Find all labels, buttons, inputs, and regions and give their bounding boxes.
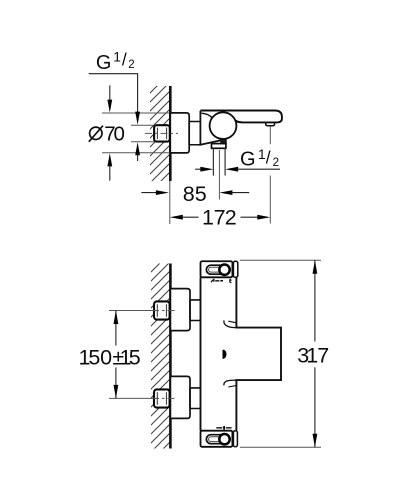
G 1/2 leader arrow (pointing down at nut top line)	[135, 112, 140, 125]
bottom union nut	[154, 389, 170, 407]
spout tip extension line (lower part)	[269, 176, 271, 224]
top union nut	[154, 301, 170, 319]
svg-text:317: 317	[297, 343, 329, 367]
escutcheon (wall rosette, side)	[170, 113, 189, 153]
union nut on wall	[154, 125, 170, 141]
bottom inlet centerline / 150 extension line	[109, 397, 154, 399]
nut chamfer lines	[156, 128, 158, 140]
svg-text:G: G	[96, 52, 112, 74]
handle side cap (top)	[233, 261, 237, 277]
svg-text:1: 1	[258, 147, 266, 162]
handle knob circle (top)	[219, 265, 229, 275]
bottom connector	[190, 388, 201, 409]
handle grip stadium (bottom)	[206, 435, 230, 444]
nut bottom arrow (pointing up)	[135, 142, 140, 155]
wall (hatched)	[151, 264, 170, 449]
svg-text:2: 2	[273, 157, 279, 169]
handle knob circle (bottom)	[219, 434, 229, 444]
handle side cap (bottom)	[233, 431, 237, 447]
G 1/2 leader underline	[89, 74, 138, 112]
wall face line	[169, 86, 172, 181]
wall (hatched) top view	[150, 86, 170, 181]
wall face extension line (below wall)	[169, 181, 171, 224]
nut bottom edge extension line	[131, 141, 154, 143]
temperature handle (top)	[201, 261, 233, 277]
G 1/2 bottom outlet dimension: left arrow	[195, 168, 201, 170]
shower outlet nut	[212, 144, 226, 149]
dimension 85 : right arrow at hose centerline	[219, 190, 232, 195]
svg-text:70: 70	[104, 122, 125, 145]
cartridge dome circle	[210, 112, 237, 139]
Ø70 bottom arrow (pointing up)	[107, 153, 112, 166]
top inlet centerline / 150 extension line	[109, 310, 154, 312]
svg-text:2: 2	[128, 59, 134, 71]
connector between escutcheon and body	[189, 122, 200, 145]
dimension 150±15 : line + arrows	[115, 311, 117, 346]
nut top edge extension line	[131, 124, 154, 126]
Ø70 dimension label	[90, 127, 102, 139]
svg-text:1: 1	[113, 50, 121, 65]
hose thread (two vertical lines)	[212, 148, 214, 175]
spout outlet nub	[266, 122, 275, 125]
faucet body left block	[200, 111, 222, 145]
svg-text:85: 85	[183, 182, 207, 206]
Ø70 extension line (top, escutcheon top edge extended)	[102, 112, 170, 114]
bottom escutcheon	[170, 376, 190, 418]
body top-left fillet curve	[202, 113, 212, 117]
flow handle (bottom)	[201, 431, 233, 447]
hose centerline	[218, 150, 220, 200]
bottom protrusion fillet arc	[224, 380, 237, 385]
svg-text:150±15: 150±15	[79, 346, 141, 370]
scale marks above bottom handle	[216, 427, 222, 428]
dimension 317 : extension lines	[240, 259, 321, 261]
thermostat main body with mixer protrusion	[201, 277, 282, 430]
dimension 85 : left arrow at wall	[141, 192, 157, 194]
right arrow	[225, 167, 238, 172]
spout tip extension line (upper part)	[269, 126, 271, 144]
inlet centerlines dash-dot over nuts	[152, 310, 176, 312]
temperature scale marks below top handle	[211, 280, 213, 283]
top protrusion fillet arc	[224, 320, 237, 327]
top connector	[190, 300, 201, 321]
dimension 172	[170, 215, 183, 220]
svg-text:172: 172	[202, 205, 237, 229]
nut centerline (dash-dot)	[145, 132, 178, 134]
top fillet tick	[228, 321, 236, 323]
svg-text:/: /	[266, 148, 271, 168]
svg-text:/: /	[122, 50, 127, 70]
Ø70 top arrow (pointing down)	[109, 85, 111, 101]
shower outlet stub below dome	[221, 139, 226, 144]
handle grip stadium (top)	[206, 265, 230, 274]
wall face line	[169, 264, 172, 449]
eco-button mark on body	[223, 350, 227, 359]
317 dimension line + arrows	[314, 260, 316, 341]
Ø70 extension line (bottom)	[102, 152, 170, 154]
lever handle (top bar with rounded right end)	[200, 111, 282, 123]
svg-text:G: G	[240, 149, 256, 171]
top escutcheon	[170, 289, 190, 331]
bottom fillet tick	[228, 385, 236, 387]
